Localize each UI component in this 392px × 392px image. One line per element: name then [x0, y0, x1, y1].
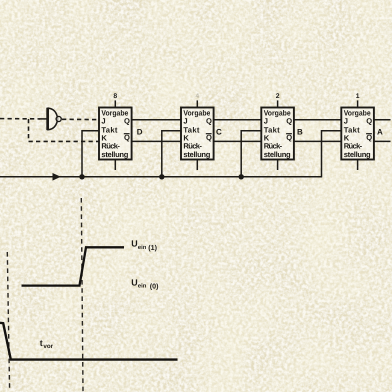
- svg-text:Q: Q: [286, 117, 292, 126]
- svg-text:1: 1: [356, 93, 360, 100]
- svg-text:Q: Q: [366, 117, 372, 126]
- svg-text:t: t: [40, 338, 43, 348]
- wire: FF4 Q output: [374, 119, 391, 121]
- svg-text:4: 4: [195, 93, 199, 100]
- svg-text:ein: ein: [138, 244, 147, 251]
- label t_vor: [40, 338, 54, 350]
- flip-flop FF4: [341, 100, 374, 170]
- flip-flop FF3: [261, 100, 294, 170]
- junction dot: FF3 clock tap: [239, 174, 244, 179]
- wire: FF1 Takt branch vertical: [82, 131, 99, 177]
- timing reference dashed line t2 (clock edge, below FF1 clock tap): [81, 198, 83, 392]
- svg-text:U: U: [131, 277, 137, 287]
- wire: FF4 Qbar output: [374, 140, 391, 142]
- wire: clock bus with riser to FF4 Takt: [0, 131, 341, 177]
- svg-text:Q: Q: [124, 133, 130, 142]
- svg-text:J: J: [264, 117, 268, 126]
- svg-text:stellung: stellung: [183, 150, 210, 159]
- wire: solid stub into inverter: [40, 118, 47, 120]
- svg-text:(1): (1): [148, 244, 157, 252]
- label U_ein (1): [131, 239, 157, 252]
- flip-flop FF1: [99, 100, 132, 170]
- label U_ein (0): [131, 277, 159, 290]
- svg-text:A: A: [377, 128, 383, 137]
- svg-text:stellung: stellung: [344, 150, 371, 159]
- svg-text:U: U: [131, 239, 137, 249]
- svg-text:(0): (0): [150, 282, 159, 290]
- svg-text:B: B: [297, 128, 303, 137]
- wire: dashed input line to inverter: [0, 118, 40, 120]
- flip-flop FF2: [181, 100, 214, 170]
- junction dot: FF1 clock tap: [79, 174, 84, 179]
- svg-text:J: J: [183, 117, 187, 126]
- wire: FF2 Takt branch vertical: [162, 131, 181, 177]
- junction dot: FF2 clock tap: [159, 174, 164, 179]
- wire: FF1 Q to FF2 J: [132, 119, 181, 121]
- waveform U_ein (input voltage step): [22, 247, 125, 285]
- waveform t_vor (preparation signal): [0, 323, 178, 360]
- svg-text:J: J: [344, 117, 348, 126]
- svg-text:Q: Q: [206, 117, 212, 126]
- svg-text:8: 8: [113, 93, 117, 100]
- svg-text:C: C: [216, 127, 222, 136]
- svg-text:Q: Q: [366, 133, 372, 142]
- wire: FF3 Q to FF4 J: [294, 119, 341, 121]
- wire: FF2 Q to FF3 J: [214, 119, 262, 121]
- svg-text:vor: vor: [43, 343, 53, 350]
- wire: dashed branch vertical at node x=28.5: [28, 119, 30, 141]
- wire: FF3 Qbar to FF4 K: [294, 140, 341, 142]
- svg-text:Q: Q: [124, 117, 130, 126]
- wire: dashed inverter output to FF1 J input: [62, 118, 99, 120]
- timing reference dashed line t1 (falling edge): [7, 252, 9, 390]
- svg-text:Q: Q: [206, 133, 212, 142]
- svg-text:Q: Q: [286, 133, 292, 142]
- svg-text:D: D: [137, 128, 143, 137]
- wire: FF3 Takt branch vertical: [241, 131, 261, 177]
- svg-text:2: 2: [276, 93, 280, 100]
- svg-text:J: J: [101, 117, 105, 126]
- wire: FF1 Qbar to FF2 K: [132, 140, 181, 142]
- inverter gate G1: [47, 108, 61, 131]
- svg-text:stellung: stellung: [264, 150, 291, 159]
- arrowhead on clock bus: [53, 173, 61, 181]
- wire: FF2 Qbar to FF3 K: [214, 140, 262, 142]
- svg-text:stellung: stellung: [101, 150, 128, 159]
- wire: dashed branch to FF1 K input: [29, 140, 100, 142]
- svg-text:ein: ein: [138, 282, 147, 289]
